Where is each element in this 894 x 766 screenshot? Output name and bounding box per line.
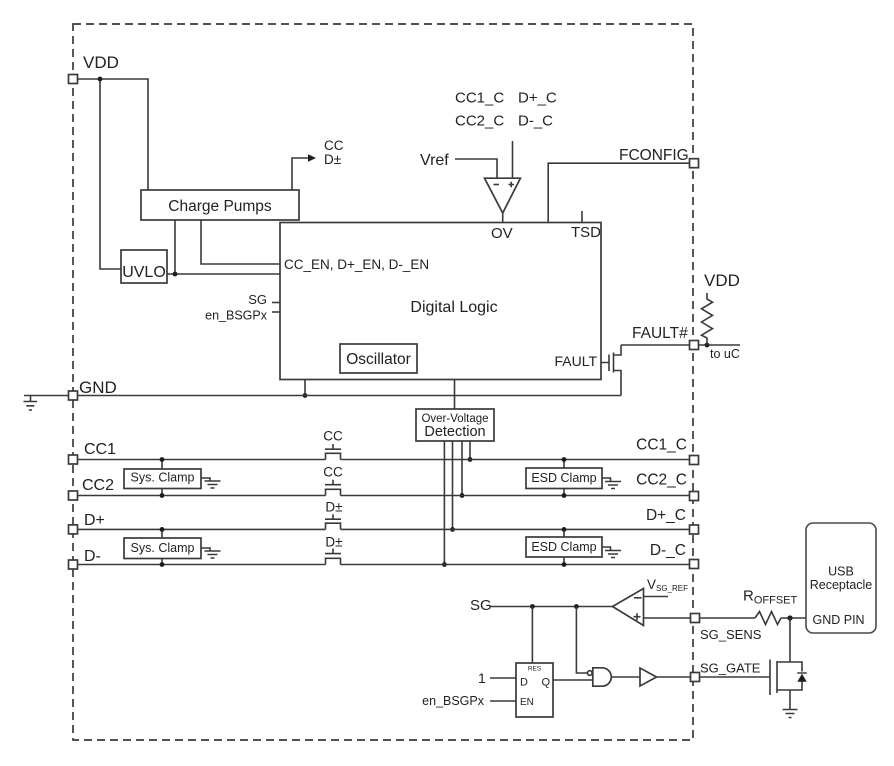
label D-_C (right): [650, 542, 686, 559]
pin D-_C: [690, 560, 699, 569]
ground (ESD clamp D): [602, 547, 621, 558]
svg-text:CC2_C: CC2_C: [455, 113, 504, 130]
svg-text:Sys. Clamp: Sys. Clamp: [131, 541, 195, 555]
pin FCONFIG: [690, 159, 699, 168]
svg-text:RES: RES: [528, 666, 542, 673]
svg-text:SG_GATE: SG_GATE: [700, 661, 761, 676]
wire OVD to CC2 rail: [460, 441, 465, 498]
svg-text:CC2: CC2: [82, 477, 114, 494]
label FAULT#: [632, 325, 688, 342]
wire EN input: [490, 700, 516, 702]
svg-text:CC: CC: [323, 465, 343, 480]
pin SG_GATE: [691, 673, 700, 682]
wire SG_GATE to FET gate: [700, 676, 771, 678]
svg-text:GND PIN: GND PIN: [813, 613, 865, 627]
label 1 (D input): [478, 670, 486, 686]
block ESD Clamp (CC): [526, 457, 602, 498]
wire digital logic to over-voltage detection: [454, 380, 456, 410]
label D+_C (top): [518, 90, 557, 107]
pin D+_C: [690, 525, 699, 534]
wire D+ rail: [78, 528, 690, 530]
svg-text:SG_SENS: SG_SENS: [700, 627, 762, 642]
wire comparator to SG_SENS: [644, 617, 691, 619]
label CC (CC2 FET): [323, 465, 343, 480]
wire FCONFIG: [548, 163, 689, 222]
pin D+: [69, 525, 78, 534]
op-amp SG comparator: [613, 589, 644, 626]
svg-text:D-: D-: [84, 548, 101, 565]
ground (sys clamp D): [201, 548, 221, 558]
resistor pull-up to VDD: [702, 293, 713, 345]
label FCONFIG: [619, 147, 689, 164]
label CC (arrow): [324, 138, 344, 153]
svg-text:TSD: TSD: [571, 224, 601, 241]
wire D input: [490, 677, 516, 679]
transistor CC2 pass FET: [325, 480, 341, 496]
wire V_SG_REF input: [644, 596, 669, 598]
label to uC: [710, 347, 740, 361]
svg-text:CC1_C: CC1_C: [636, 437, 687, 454]
wire VDD pin to charge pump feed: [78, 79, 149, 190]
label D-: [84, 548, 101, 565]
flip-flop U3: [516, 663, 553, 717]
svg-text:CC_EN, D+_EN, D-_EN: CC_EN, D+_EN, D-_EN: [284, 257, 429, 272]
transistor FAULT output FET: [601, 345, 621, 396]
svg-text:Sys. Clamp: Sys. Clamp: [131, 471, 195, 485]
label CC2_C (right): [636, 472, 687, 489]
label SG_SENS: [700, 627, 762, 642]
wire OVD to D- rail: [442, 441, 447, 567]
label Vref: [420, 152, 449, 169]
svg-text:CC1_C: CC1_C: [455, 90, 504, 107]
block Sys. Clamp (D): [124, 527, 201, 567]
svg-text:Detection: Detection: [424, 424, 485, 440]
label D± (D- FET): [325, 535, 342, 550]
label CC2_C (top): [455, 113, 504, 130]
IC boundary dashed border: [73, 24, 693, 740]
wire SG_SENS to resistor: [700, 617, 756, 619]
svg-text:SG: SG: [248, 292, 267, 307]
svg-text:EN: EN: [520, 697, 534, 708]
wire comparator to OV input: [502, 213, 504, 223]
wire to uC: [698, 344, 740, 346]
svg-text:D+_C: D+_C: [646, 507, 686, 524]
pin CC2: [69, 491, 78, 500]
wire OVD to CC1 rail: [468, 441, 473, 462]
pin SG_SENS: [691, 614, 700, 623]
svg-text:OV: OV: [491, 225, 513, 242]
label CC (CC1 FET): [323, 429, 343, 444]
ground (SG FET): [783, 710, 798, 718]
node SG to gate: [574, 604, 579, 609]
svg-text:VDD: VDD: [83, 53, 119, 72]
svg-text:USB: USB: [828, 565, 854, 579]
svg-text:Digital Logic: Digital Logic: [410, 299, 497, 316]
svg-text:D±: D±: [324, 152, 341, 167]
label CC1: [84, 441, 116, 458]
svg-text:FAULT#: FAULT#: [632, 325, 688, 342]
transistor D+ pass FET: [325, 514, 341, 529]
svg-text:D-_C: D-_C: [518, 113, 553, 130]
wire CC1 rail: [78, 459, 690, 461]
wire comparator input from CC/D labels: [512, 141, 514, 178]
wire SG to AND gate top input: [576, 607, 587, 674]
diode body diode: [790, 662, 807, 690]
label CC1_C (right): [636, 437, 687, 454]
label D± (arrow): [324, 152, 341, 167]
wire VDD to UVLO: [100, 79, 121, 269]
wire SG: [490, 606, 613, 608]
svg-text:D±: D±: [325, 500, 342, 515]
label SG (digital logic input): [248, 292, 280, 307]
wire Q to AND gate: [553, 679, 593, 681]
svg-text:ESD Clamp: ESD Clamp: [531, 471, 596, 485]
op-amp OV comparator: [485, 178, 521, 213]
svg-text:1: 1: [478, 670, 486, 686]
wire OVD to D+ rail: [450, 441, 455, 532]
label VDD (pull-up): [704, 271, 740, 290]
svg-text:D: D: [520, 677, 528, 689]
wire buffer to SG_GATE pin: [657, 676, 691, 678]
svg-text:D+_C: D+_C: [518, 90, 557, 107]
wire GND rail: [24, 395, 621, 397]
pin FAULT#: [690, 341, 699, 350]
pin VDD: [69, 75, 78, 84]
svg-text:D±: D±: [325, 535, 342, 550]
svg-text:Q: Q: [541, 677, 550, 689]
svg-text:ESD Clamp: ESD Clamp: [531, 540, 596, 554]
block Oscillator: [340, 344, 417, 373]
svg-text:to uC: to uC: [710, 347, 740, 361]
wire Vref to comparator: [455, 159, 497, 178]
pin GND: [69, 391, 78, 400]
block ESD Clamp (D): [526, 527, 602, 567]
svg-text:CC1: CC1: [84, 441, 116, 458]
svg-text:Receptacle: Receptacle: [810, 578, 873, 592]
wire AND to buffer: [612, 676, 640, 678]
wire charge pump to digital logic (CC_EN): [201, 220, 280, 264]
resistor R_OFFSET: [755, 612, 781, 625]
label CC1_C (top): [455, 90, 504, 107]
block Sys. Clamp (CC): [124, 457, 201, 498]
wire UVLO to digital logic: [167, 273, 280, 275]
label D-_C (top): [518, 113, 553, 130]
label SG (bottom): [470, 597, 492, 614]
block UVLO: [121, 250, 167, 283]
svg-text:VDD: VDD: [704, 271, 740, 290]
wire charge pump down to UVLO net: [174, 220, 176, 274]
label en_BSGPx (EN input): [422, 694, 485, 708]
svg-text:FCONFIG: FCONFIG: [619, 147, 689, 164]
AND gate with inverted input: [588, 668, 612, 686]
ground (main): [24, 396, 38, 411]
pin D-: [69, 560, 78, 569]
transistor CC1 pass FET: [325, 444, 341, 460]
label D+: [84, 512, 105, 529]
label V_SG_REF: [647, 577, 688, 593]
label D± (D+ FET): [325, 500, 342, 515]
transistor SG blocking FET: [770, 660, 790, 710]
svg-text:CC2_C: CC2_C: [636, 472, 687, 489]
label SG_GATE: [700, 661, 761, 676]
label D+_C (right): [646, 507, 686, 524]
wire SG to flip-flop RES: [531, 607, 533, 664]
svg-text:FAULT: FAULT: [554, 353, 597, 369]
wire FAULT#: [621, 344, 689, 346]
buffer: [640, 668, 657, 686]
wire CC2 rail: [78, 495, 690, 497]
wire digital logic to GND rail: [303, 380, 308, 398]
node GND PIN junction: [787, 615, 792, 620]
label VDD: [83, 53, 119, 72]
svg-text:CC: CC: [324, 138, 344, 153]
svg-text:en_BSGPx: en_BSGPx: [205, 309, 268, 323]
wire resistor to GND PIN: [781, 617, 806, 619]
pin CC1_C: [690, 456, 699, 465]
label R_OFFSET: [743, 588, 798, 607]
label CC2: [82, 477, 114, 494]
svg-text:D-_C: D-_C: [650, 542, 686, 559]
node pullup junction: [705, 343, 710, 348]
pin CC1: [69, 455, 78, 464]
block USB Receptacle: [806, 523, 876, 633]
block Over-Voltage Detection: [416, 409, 494, 441]
svg-text:SG: SG: [470, 597, 492, 614]
pin CC2_C: [690, 492, 699, 501]
svg-text:Oscillator: Oscillator: [346, 351, 411, 368]
node UVLO-CP junction: [173, 272, 178, 277]
svg-text:Charge Pumps: Charge Pumps: [168, 198, 272, 215]
svg-text:GND: GND: [79, 378, 117, 397]
wire TSD tick: [581, 211, 583, 223]
label en_BSGPx (digital logic input): [205, 309, 280, 323]
svg-text:D+: D+: [84, 512, 105, 529]
wire D- rail: [78, 564, 690, 566]
block Charge Pumps: [141, 190, 299, 220]
node VDD junction: [98, 77, 103, 82]
svg-text:Vref: Vref: [420, 152, 449, 169]
svg-text:en_BSGPx: en_BSGPx: [422, 694, 485, 708]
wire drain (bold): [789, 618, 791, 662]
wire charge pump output arrow to CC D±: [292, 154, 316, 190]
transistor D- pass FET: [325, 549, 341, 565]
block Digital Logic: [280, 223, 601, 380]
svg-text:UVLO: UVLO: [122, 264, 166, 281]
svg-text:CC: CC: [323, 429, 343, 444]
ground (sys clamp CC): [201, 478, 221, 488]
node SG to flip-flop: [530, 604, 535, 609]
label GND: [79, 378, 117, 397]
ground (ESD clamp CC): [602, 478, 621, 489]
